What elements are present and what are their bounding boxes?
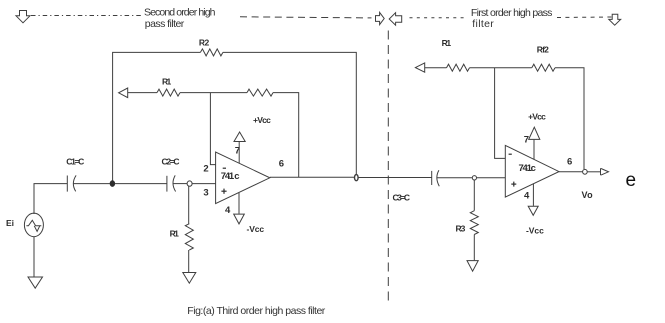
dashed annotation line (right of 'First order' label) <box>557 16 612 19</box>
wire: Ei to ground <box>33 237 35 277</box>
svg-text:+Vcc: +Vcc <box>528 111 546 121</box>
wire: output node to arrow <box>587 171 600 173</box>
wire: node to R1 shunt <box>188 186 190 223</box>
wire arrowhead left (R1 feedback row, stage 1) <box>119 88 128 98</box>
svg-text:e: e <box>626 170 637 191</box>
resistor R1 (stage 1 feedback) <box>157 89 180 96</box>
svg-text:+Vcc: +Vcc <box>253 115 271 125</box>
op-amp U1 triangle <box>216 152 270 204</box>
-Vcc arrow (stage 1) <box>234 214 245 224</box>
svg-text:Vo: Vo <box>582 190 594 200</box>
-Vcc arrow (stage 2) <box>528 206 538 215</box>
ground (below R3) <box>467 261 478 272</box>
wire: op-amp 2 output <box>559 171 583 173</box>
svg-text:filter: filter <box>472 18 494 30</box>
svg-text:-Vcc: -Vcc <box>526 226 544 236</box>
+Vcc arrow (stage 1) <box>234 132 245 142</box>
source Ei sine-arrow symbol <box>26 220 41 226</box>
wire: C3 to node <box>437 177 472 179</box>
node circle (output node, stage 1) <box>355 175 359 181</box>
wire: R1 shunt to ground <box>188 250 190 272</box>
block arrow left (mid top) <box>389 13 402 26</box>
svg-text:C1=C: C1=C <box>66 157 84 167</box>
svg-text:6: 6 <box>279 159 284 170</box>
svg-text:3: 3 <box>203 188 208 199</box>
wire arrowhead left (R1 row, stage 2) <box>415 63 424 72</box>
svg-text:4: 4 <box>225 205 231 216</box>
svg-text:C3=C: C3=C <box>393 192 411 202</box>
node circle (pin 3 node, stage 1) <box>187 181 192 186</box>
wire: R1 feedback row left segment <box>128 92 157 94</box>
wire: C2 to node <box>173 183 187 185</box>
svg-text:Rf2: Rf2 <box>537 44 549 54</box>
wire: R1 feedback row middle segment <box>180 92 247 94</box>
svg-text:-Vcc: -Vcc <box>247 224 265 234</box>
svg-text:Second order high: Second order high <box>144 7 216 19</box>
dashed annotation line (left of 'First order' label) <box>410 17 467 19</box>
wire: inverting input drop (stage 2) <box>495 68 506 159</box>
resistor Rf (stage1 second zigzag) <box>247 89 273 96</box>
svg-text:6: 6 <box>567 156 572 167</box>
resistor R2 <box>200 49 223 56</box>
wire: pin 4 to -Vcc (stage 2) <box>532 184 534 206</box>
wire: pin 4 to -Vcc <box>238 193 240 214</box>
junction dot (input node) <box>110 180 115 187</box>
wire: R2 feedback top rail <box>113 52 201 183</box>
wire: inverting input drop (pin 2, stage 1) <box>210 93 215 165</box>
wire: pin 7 to +Vcc (stage 2) <box>533 140 535 160</box>
node circle (pin 3 node, stage 2) <box>472 176 476 180</box>
svg-text:741c: 741c <box>519 163 536 174</box>
wire: R1 to Rf2 <box>470 67 532 69</box>
capacitor C1 <box>66 176 68 192</box>
node circle (output, stage 2) <box>583 169 588 174</box>
op-amp U2 triangle <box>505 145 559 197</box>
svg-text:R3: R3 <box>456 224 466 234</box>
wire: node to op-amp pin 3 <box>192 183 216 185</box>
capacitor C2 <box>166 176 168 192</box>
wire: node to R3 <box>473 180 475 211</box>
svg-text:R1: R1 <box>162 77 171 87</box>
+Vcc arrow (stage 2) <box>529 127 540 139</box>
capacitor C3 <box>431 171 433 185</box>
wire: R3 to ground <box>473 235 475 261</box>
wire: feedback row to output <box>273 93 299 178</box>
wire: stage 2 R1 row left segment <box>425 67 447 69</box>
svg-text:R1: R1 <box>170 229 179 239</box>
resistor Rf2 <box>532 64 555 71</box>
source Ei circle <box>24 213 43 237</box>
dash-dot annotation line (left of 'Second order' label) <box>31 15 141 17</box>
wire: pin 7 to +Vcc <box>238 142 240 164</box>
svg-text:741 c: 741 c <box>221 171 240 182</box>
svg-text:2: 2 <box>203 164 208 175</box>
dashed annotation line (right of 'Second order' label) <box>240 17 372 18</box>
svg-text:pass filter: pass filter <box>145 18 185 30</box>
wire: Ei to main input line <box>34 184 67 214</box>
svg-text:4: 4 <box>524 190 530 201</box>
wire: Rf2 to output node (stage 2 feedback) <box>555 68 584 169</box>
wire: R2 to output node <box>223 52 356 174</box>
wire: op-amp 1 output <box>270 176 355 178</box>
wire: output node to C3 <box>358 177 431 179</box>
block arrow down (top-right) <box>609 14 621 25</box>
svg-text:R2: R2 <box>199 38 210 48</box>
block arrow down (top-left) <box>16 11 30 23</box>
svg-text:7: 7 <box>524 135 529 146</box>
svg-text:Fig:(a) Third order high pass: Fig:(a) Third order high pass filter <box>187 305 325 317</box>
svg-text:R1: R1 <box>442 38 452 48</box>
resistor R1 (stage 1 shunt) <box>185 224 193 250</box>
ground (below R1 shunt) <box>183 273 196 284</box>
svg-text:C2=C: C2=C <box>162 157 180 167</box>
resistor R1 (stage 2) <box>447 64 470 71</box>
ground (below Ei) <box>28 277 43 288</box>
dashed stage separator line <box>387 31 389 306</box>
resistor R3 <box>470 211 478 235</box>
wire: node to op-amp 2 input <box>477 177 506 179</box>
svg-text:Ei: Ei <box>6 218 14 228</box>
output open arrow <box>600 168 602 175</box>
block arrow right (mid top) <box>376 12 385 24</box>
wire: C1 to C2 <box>73 183 167 185</box>
